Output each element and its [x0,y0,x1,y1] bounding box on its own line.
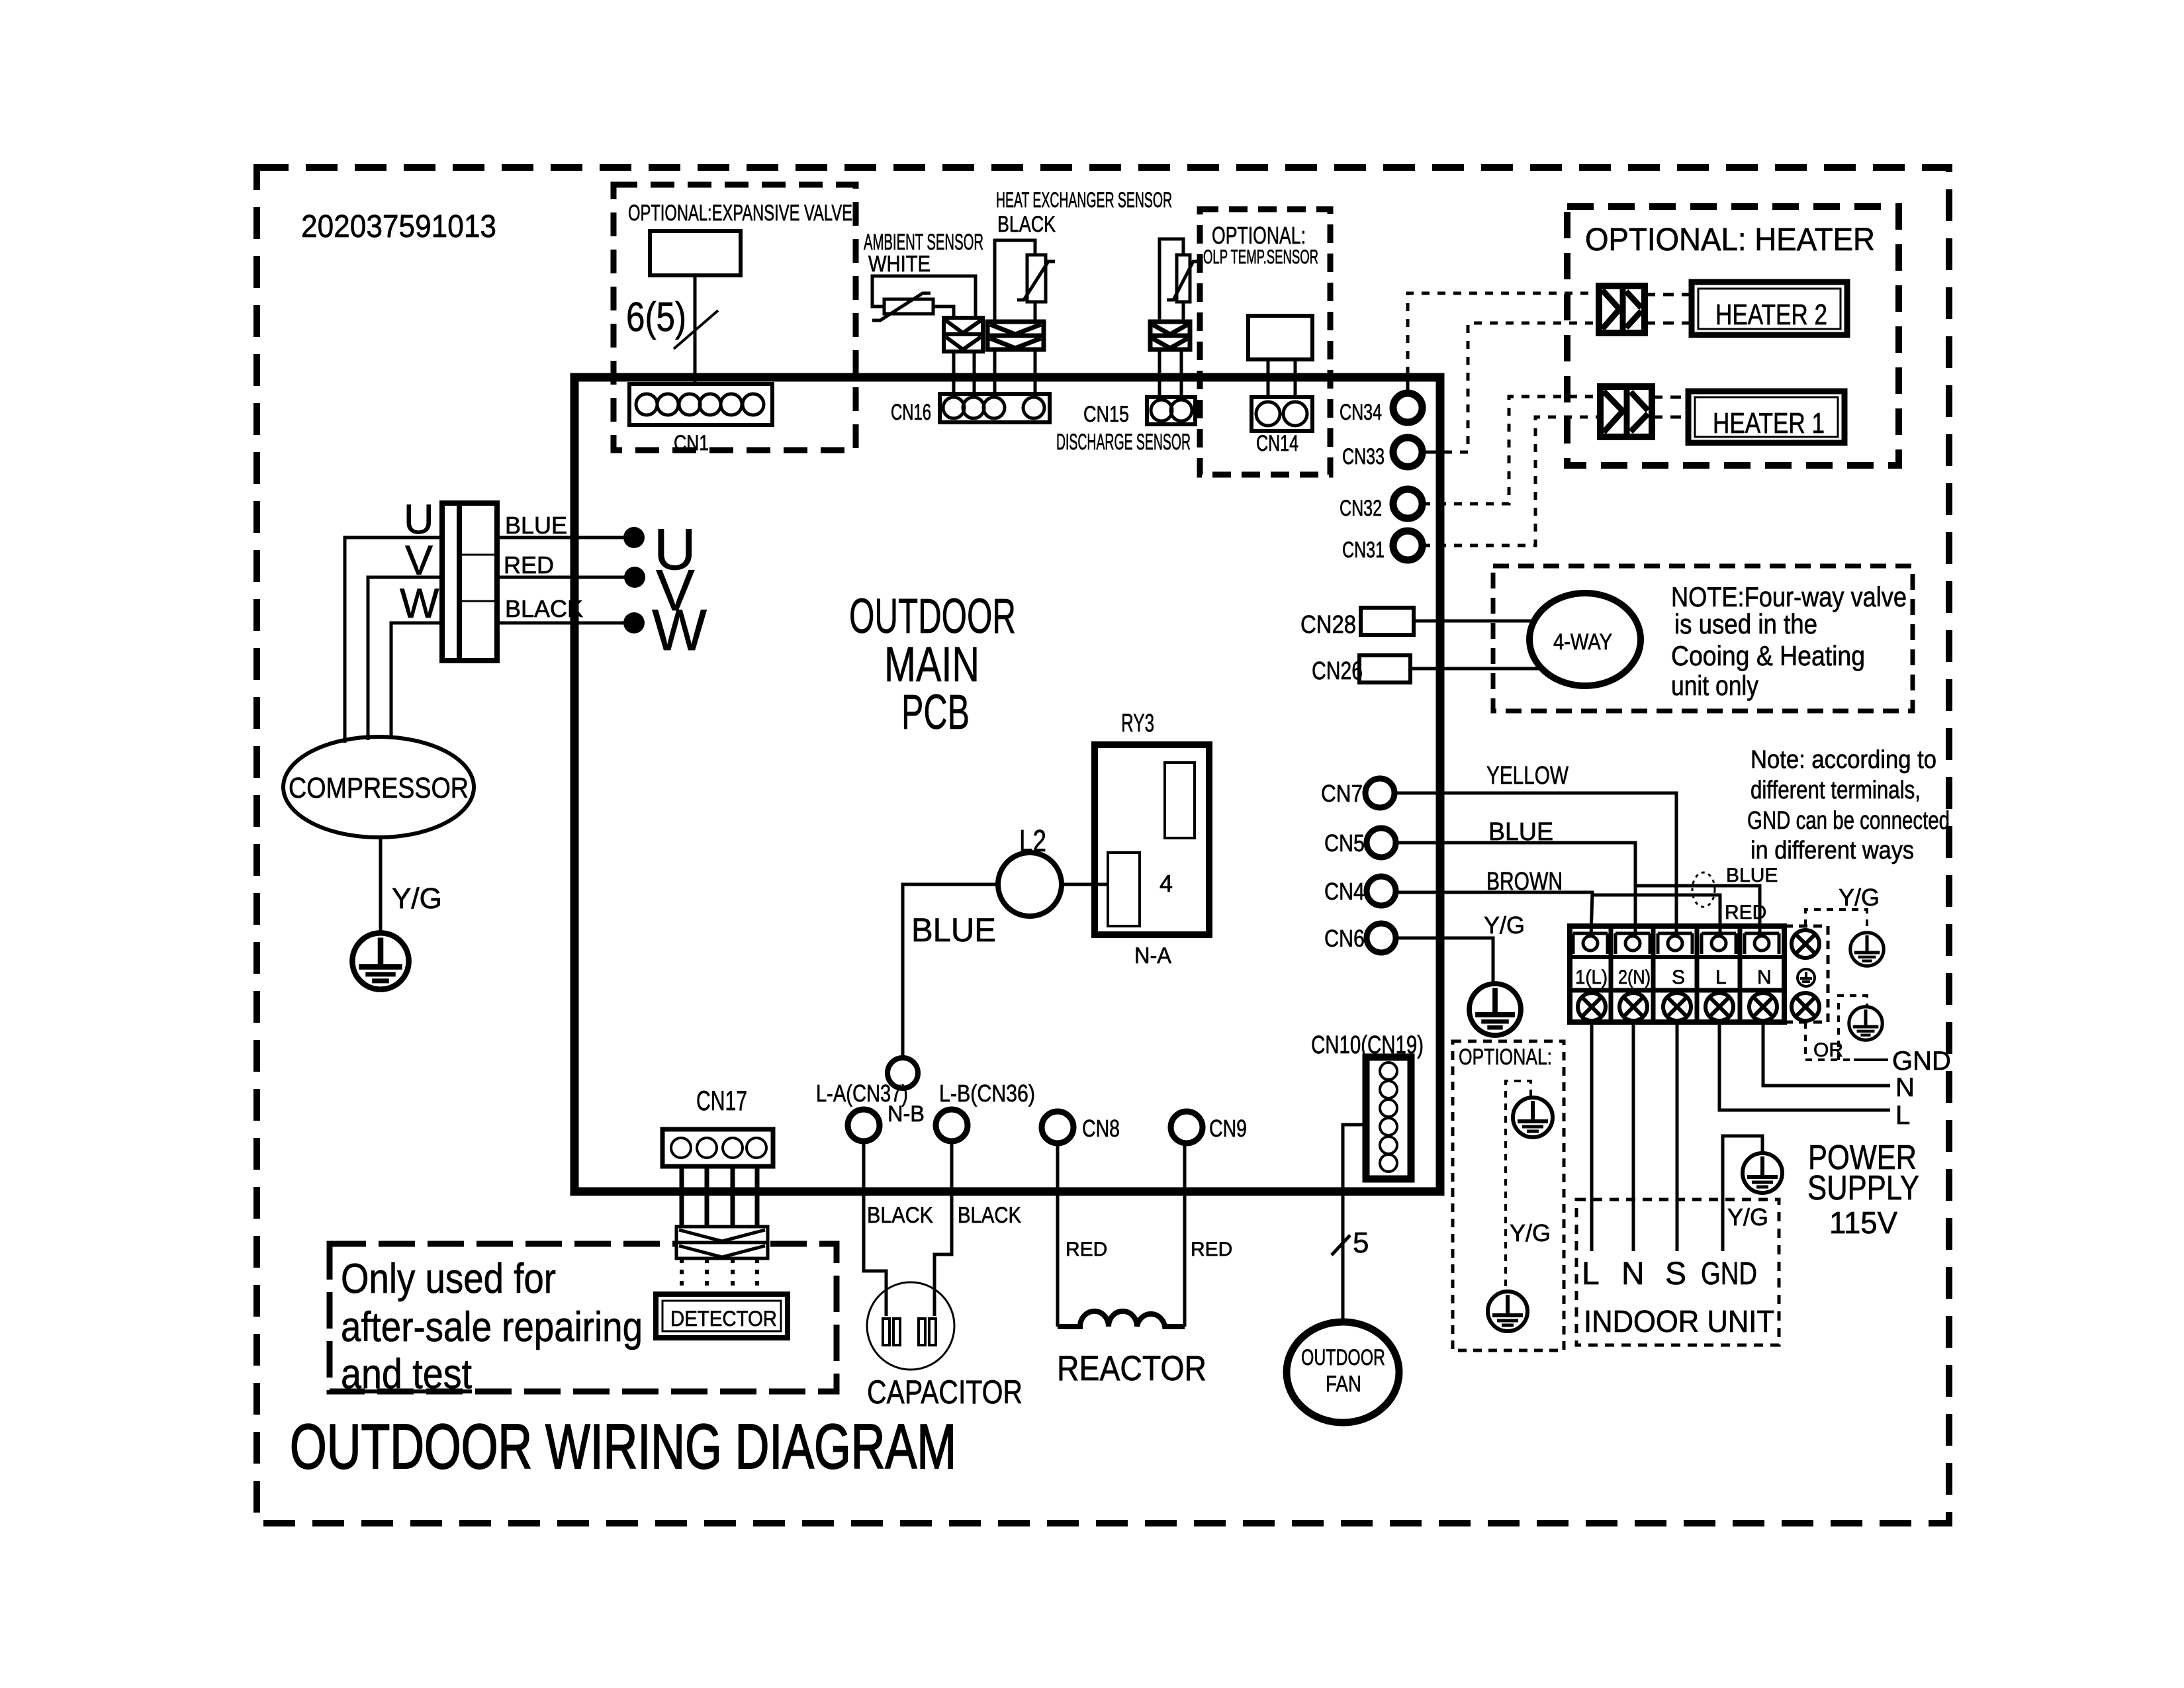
plug (CN17 detector) [676,1227,768,1258]
connector L-B(CN36) [936,1109,968,1141]
svg-text:4-WAY: 4-WAY [1553,630,1612,655]
svg-text:BLACK: BLACK [958,1203,1021,1228]
outdoor main PCB board outline [574,377,1440,1192]
svg-text:different terminals,: different terminals, [1751,776,1921,804]
wire CN26 to 4-way valve [1410,667,1543,671]
wire BLACK to node W [497,622,633,625]
wire L to power [1719,1022,1890,1110]
wire thermistor to plug [1034,302,1037,322]
svg-text:Y/G: Y/G [392,882,442,915]
svg-text:HEAT EXCHANGER SENSOR: HEAT EXCHANGER SENSOR [996,188,1172,212]
svg-text:BROWN: BROWN [1486,868,1563,896]
connector CN14 [1251,397,1312,431]
svg-text:N: N [1621,1256,1645,1291]
svg-text:S: S [1672,966,1685,988]
svg-text:YELLOW: YELLOW [1486,762,1569,790]
wire indoor GND with ground [1723,1136,1762,1251]
wire CN33 to heater2 pin b (dashed) [1444,323,1598,452]
four-way valve [1529,593,1641,686]
svg-text:OLP TEMP.SENSOR: OLP TEMP.SENSOR [1203,246,1318,268]
svg-text:2(N): 2(N) [1618,966,1651,988]
svg-text:BLUE: BLUE [911,912,996,949]
thermistor RT (heat exchanger) [1027,255,1046,302]
wire slash mark 5 [1332,1235,1350,1255]
wire N to power [1763,1022,1890,1086]
terminal pin L [1702,933,1736,954]
wire red jumper 1(L) to L [1592,895,1720,936]
wire RED to node V [497,576,635,579]
optional expansive valve dashed box [614,185,856,450]
svg-text:Y/G: Y/G [1727,1203,1768,1231]
svg-text:CN17: CN17 [696,1085,747,1116]
svg-text:OPTIONAL:EXPANSIVE VALVE: OPTIONAL:EXPANSIVE VALVE [628,201,852,226]
svg-text:HEATER 1: HEATER 1 [1713,407,1825,440]
capacitor C [867,1282,954,1370]
note four-way dashed box [1493,566,1913,711]
node N-B [887,1058,918,1088]
wire CN8 to reactor [1056,1143,1060,1327]
wire CN33 tick [1421,451,1441,454]
svg-text:COMPRESSOR: COMPRESSOR [289,772,469,804]
connector CN15 [1147,397,1195,424]
svg-text:6(5): 6(5) [626,295,686,340]
svg-text:L-B(CN36): L-B(CN36) [939,1080,1035,1107]
wire ambient sensor left loop [872,276,976,318]
svg-text:GND: GND [1892,1047,1951,1076]
OLP sensor block [1248,316,1312,359]
svg-text:L: L [1715,966,1727,988]
wire U blue [345,538,442,743]
optional OLP temp sensor dashed box [1200,209,1330,475]
wire V red [368,577,442,740]
wire CN5 blue to terminal 2(N) [1396,843,1635,936]
svg-text:FAN: FAN [1326,1372,1361,1397]
reactor coil [1058,1311,1185,1327]
terminal screw 2(N) [1619,993,1647,1021]
svg-text:CN7: CN7 [1321,780,1363,807]
terminal pin 1(L) [1573,933,1608,954]
wire CN17 pins to plug [680,1166,684,1229]
svg-text:CN33: CN33 [1342,444,1385,469]
connector CN16 [940,394,1050,422]
svg-text:Y/G: Y/G [1484,912,1525,939]
svg-text:DETECTOR: DETECTOR [670,1307,777,1331]
svg-text:BLUE: BLUE [505,512,567,539]
svg-text:N: N [1757,966,1772,988]
outdoor fan motor [1287,1322,1399,1423]
connector CN5 [1367,828,1396,857]
connector CN6 [1367,923,1396,953]
wire reactor to CN9 [1183,1143,1187,1327]
relay RY3 [1095,745,1209,935]
svg-text:BLACK: BLACK [997,212,1056,237]
svg-text:WHITE: WHITE [868,252,931,277]
terminal screw extra bottom [1792,993,1819,1021]
plug (heater 1) [1600,387,1652,437]
wire discharge plug to CN15 [1158,350,1161,399]
svg-text:Note: according to: Note: according to [1751,746,1936,774]
wire OR path (dashed) [1804,1022,1807,1060]
svg-text:S: S [1665,1256,1686,1291]
terminal screw 1(L) [1578,993,1606,1021]
wire heat exchanger plug to CN16 [993,350,997,395]
ground mini (extra column) [1797,969,1815,986]
ground (indoor Y/G) [1743,1153,1782,1193]
svg-text:PCB: PCB [901,684,970,739]
wire compressor Y/G [379,837,383,933]
ground (optional bottom) [1488,1291,1527,1331]
terminal screw N [1749,993,1777,1021]
expansive valve coil [650,231,741,275]
heater 1 [1688,391,1844,443]
terminal screw S [1663,993,1691,1021]
svg-text:OR: OR [1813,1039,1843,1061]
connector CN8 [1042,1111,1073,1143]
wire CN4 brown to terminal 1(L) [1396,892,1592,936]
svg-text:Y/G: Y/G [1510,1219,1551,1246]
wire detector dotted leads [682,1258,757,1294]
svg-text:CN26: CN26 [1312,657,1363,685]
ground (compressor) [352,933,408,989]
wire extra top to Y/G ground (dashed) [1805,910,1867,932]
svg-text:REACTOR: REACTOR [1057,1349,1206,1388]
wire CN34 tick [1406,377,1410,395]
svg-text:OUTDOOR WIRING DIAGRAM: OUTDOOR WIRING DIAGRAM [290,1411,956,1482]
svg-text:GND can be connected: GND can be connected [1747,807,1950,835]
wire CN6 to ground [1396,938,1493,986]
wire CN7 yellow to terminal S [1394,793,1676,936]
node V dot [624,567,645,588]
svg-text:OPTIONAL:: OPTIONAL: [1459,1045,1552,1070]
svg-text:L: L [1582,1256,1600,1291]
connector CN33 [1393,438,1422,467]
terminal pin N [1745,933,1779,954]
compressor terminal block [442,503,497,661]
ground (optional top) [1513,1098,1553,1137]
wire CN31 to heater1 pin b (dashed) [1422,417,1600,545]
svg-text:Cooing & Heating: Cooing & Heating [1671,640,1865,671]
svg-text:W: W [652,597,707,663]
svg-text:CN16: CN16 [891,400,931,425]
svg-text:CN32: CN32 [1340,496,1382,521]
svg-text:CN6: CN6 [1324,925,1365,952]
connector CN28 [1361,608,1414,635]
svg-text:BLUE: BLUE [1488,818,1553,846]
connector CN9 [1171,1111,1203,1143]
svg-text:N: N [1895,1073,1915,1102]
connector CN4 [1367,876,1396,906]
wire ambient sensor right [933,306,954,318]
no-connection dotted ellipse [1692,872,1715,907]
ground (terminal right bottom) [1849,1007,1882,1040]
wire L-A to capacitor [864,1141,886,1316]
heater 2 [1692,282,1847,335]
wire heater2 plug to heater2 (dashed) [1645,293,1692,297]
node U dot [623,527,645,548]
thermistor RT (ambient) [884,299,933,314]
svg-text:RED: RED [1191,1239,1232,1260]
inductor L2 [998,853,1062,916]
detector box [656,1294,788,1338]
svg-text:L-A(CN37): L-A(CN37) [816,1080,908,1107]
svg-text:CAPACITOR: CAPACITOR [867,1374,1023,1411]
svg-text:GND: GND [1701,1256,1757,1291]
svg-text:BLUE: BLUE [1726,865,1778,886]
wire CN10 to outdoor fan [1343,1125,1366,1323]
only used for dashed box [330,1244,837,1391]
wire to GND label (dashed then solid) [1805,1058,1854,1061]
optional ground dashed box [1453,1041,1564,1350]
svg-text:RED: RED [504,551,554,579]
svg-text:SUPPLY: SUPPLY [1807,1169,1919,1207]
plug (heater 2) [1599,286,1645,333]
wire terminal S to indoor S [1676,1022,1679,1251]
svg-text:CN28: CN28 [1300,611,1356,639]
svg-text:NOTE:Four-way valve: NOTE:Four-way valve [1671,581,1907,612]
svg-text:115V: 115V [1829,1205,1897,1240]
optional heater dashed box [1567,207,1899,465]
wire terminal 2(N) to indoor N [1632,1022,1635,1251]
wire CN34 to heater2 pin a (dashed) [1408,293,1598,375]
svg-text:N-A: N-A [1134,943,1171,968]
plug (ambient sensor) [944,318,983,352]
svg-text:OUTDOOR: OUTDOOR [1301,1345,1385,1370]
svg-text:CN31: CN31 [1342,538,1385,563]
svg-text:OPTIONAL:: OPTIONAL: [1212,222,1306,249]
wire discharge sensor loop [1160,239,1183,322]
wire CN32 to heater1 pin a (dashed) [1422,397,1600,504]
terminal block outline [1570,926,1784,1022]
svg-text:MAIN: MAIN [884,637,979,692]
ground (CN6) [1469,984,1521,1035]
svg-text:CN4: CN4 [1324,878,1365,905]
wire slash mark 6(5) [674,310,718,349]
connector CN34 [1393,393,1422,422]
indoor unit dashed box [1576,1199,1779,1345]
svg-text:CN15: CN15 [1083,402,1129,427]
svg-text:DISCHARGE SENSOR: DISCHARGE SENSOR [1056,430,1191,455]
svg-text:CN8: CN8 [1082,1115,1120,1142]
wire L2 to N-B [903,884,998,1058]
connector CN26 [1359,655,1410,682]
wire L2 to RY3 [1062,883,1109,886]
wire heat exchanger loop [995,240,1035,322]
ground (terminal right top) [1850,933,1884,966]
svg-text:CN9: CN9 [1209,1115,1247,1142]
wire OLP block to CN14 [1267,359,1270,399]
outer dashed border frame [257,167,1949,1523]
node W dot [623,612,645,633]
svg-text:202037591013: 202037591013 [301,209,496,244]
plug (discharge sensor) [1150,322,1190,350]
wire ambient plug to CN16 [952,352,956,395]
compressor M1 [283,737,474,837]
svg-text:is used in the: is used in the [1674,608,1817,639]
wire L-B to capacitor [934,1141,952,1316]
terminal dashed extra column [1784,926,1828,1022]
svg-text:CN34: CN34 [1340,400,1382,425]
wire thermistor to plug (discharge) [1182,302,1185,322]
svg-text:RED: RED [1066,1239,1107,1260]
wire blue jumper 2(N) to N [1635,886,1760,936]
svg-text:HEATER 2: HEATER 2 [1715,299,1827,331]
thermistor RT (discharge) [1177,255,1190,302]
svg-text:W: W [400,581,439,627]
plug (heat exchanger sensor) [987,322,1044,350]
wire terminal 1(L) to indoor L [1590,1022,1594,1251]
svg-text:INDOOR UNIT: INDOOR UNIT [1584,1304,1774,1338]
svg-text:unit only: unit only [1671,670,1758,701]
connector CN7 [1365,778,1394,808]
svg-text:L: L [1895,1101,1910,1130]
connector CN1 [629,384,772,425]
svg-text:Only used for: Only used for [341,1256,556,1302]
svg-text:CN14: CN14 [1256,431,1298,456]
svg-text:CN1: CN1 [674,431,709,455]
terminal pin 2(N) [1615,933,1650,954]
connector L-A(CN37) [848,1109,880,1141]
terminal screw extra top [1792,930,1819,958]
connector CN10(CN19) [1366,1057,1411,1179]
wire CN28 to 4-way valve [1414,620,1535,623]
svg-text:1(L): 1(L) [1575,966,1608,988]
svg-text:RY3: RY3 [1121,710,1154,737]
svg-text:4: 4 [1160,870,1173,897]
wire valve to CN1 [694,275,697,384]
wire heater1 plug to heater1 (dashed) [1652,396,1688,399]
connector CN17 [662,1129,773,1166]
wire BLUE to node U [497,536,633,539]
svg-text:CN5: CN5 [1324,829,1365,857]
svg-text:5: 5 [1353,1227,1369,1259]
wire optional ground (dashed) [1506,1081,1531,1290]
terminal screw L [1706,993,1733,1021]
svg-text:BLACK: BLACK [867,1203,933,1228]
svg-text:Y/G: Y/G [1839,884,1880,911]
svg-text:OPTIONAL: HEATER: OPTIONAL: HEATER [1585,222,1875,258]
svg-text:in different ways: in different ways [1751,837,1914,865]
wire W black [391,623,442,739]
connector CN32 [1393,489,1422,518]
terminal pin S [1658,933,1692,954]
svg-text:after-sale repairing: after-sale repairing [341,1304,643,1350]
svg-text:OUTDOOR: OUTDOOR [849,588,1016,643]
connector CN31 [1393,531,1422,560]
